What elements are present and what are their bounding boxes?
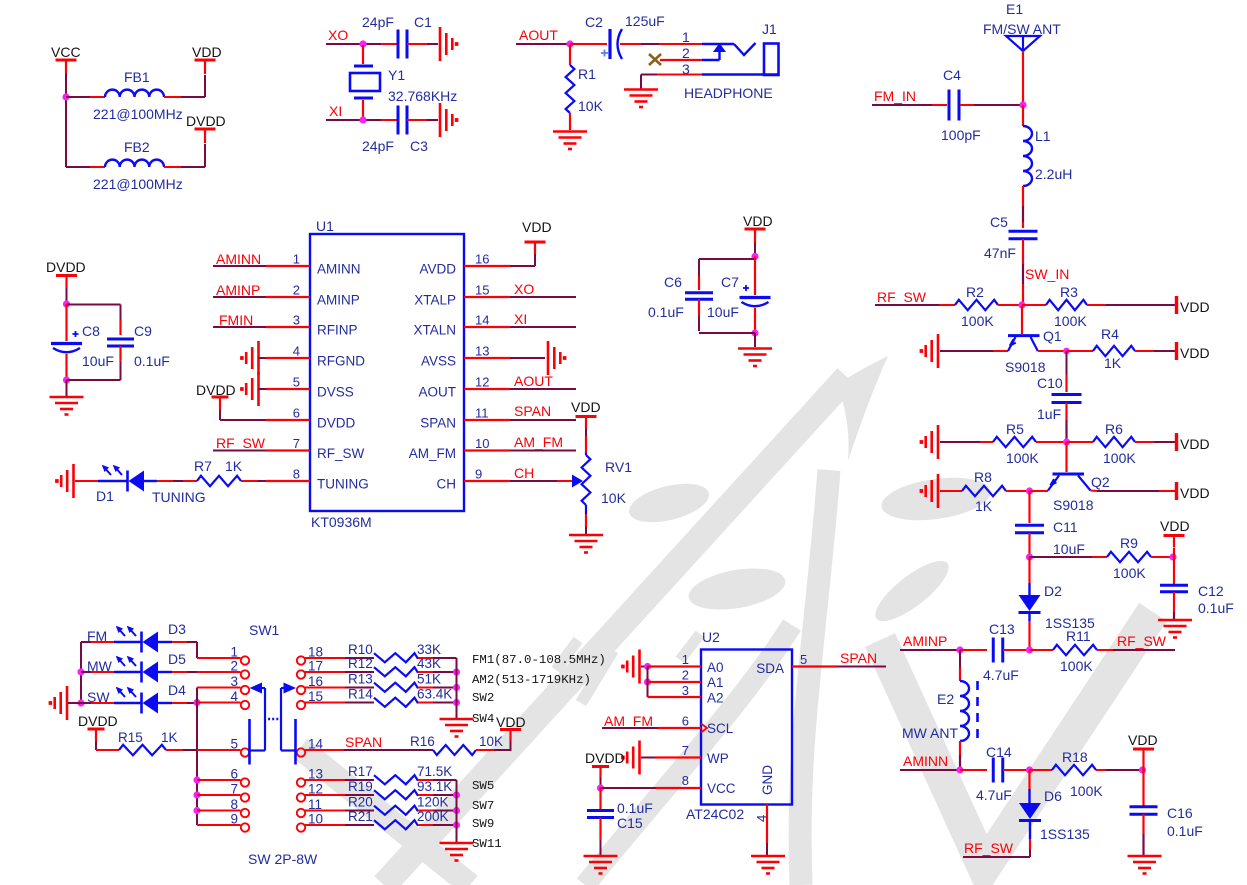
wire C7 to bottom loop <box>754 308 756 331</box>
wire XO to C1 <box>381 43 397 45</box>
net label FMIN (pin3) <box>213 312 266 328</box>
power symbol VDD (RV1) <box>571 399 601 429</box>
wire ground to D1 <box>75 480 98 482</box>
wire A0 <box>648 665 702 667</box>
svg-text:1SS135: 1SS135 <box>1040 826 1090 842</box>
svg-text:93.1K: 93.1K <box>417 779 452 794</box>
svg-text:4.7uF: 4.7uF <box>983 667 1019 683</box>
wire R12 to bus <box>418 671 457 673</box>
resistor R14 63.4K <box>348 687 452 707</box>
wire FB2 right to DVDD <box>164 144 205 167</box>
power symbol VDD (U1 pin16) <box>522 219 552 254</box>
svg-text:RV1: RV1 <box>605 459 632 475</box>
svg-text:10K: 10K <box>578 98 604 114</box>
wire SW1 to R12 <box>305 671 374 673</box>
crystal Y1 <box>350 45 457 119</box>
svg-text:L1: L1 <box>1035 128 1051 144</box>
wire R9 to junction <box>1151 556 1173 558</box>
capacitor C7 10uF (polarized) <box>707 257 771 321</box>
svg-text:FB2: FB2 <box>124 139 150 155</box>
junction C14/D6/R18 <box>1026 766 1033 773</box>
switch SW1 right contacts <box>297 645 324 832</box>
capacitor C12 0.1uF <box>1160 557 1234 616</box>
wire junction to R11 <box>1030 649 1054 651</box>
capacitor C5 47nF <box>984 214 1038 261</box>
no-connect X (J1 pin2) <box>649 54 661 65</box>
svg-text:R17: R17 <box>348 764 373 779</box>
power symbol VDD (row C) <box>1177 433 1210 452</box>
svg-text:100K: 100K <box>1006 450 1039 466</box>
svg-text:125uF: 125uF <box>625 13 665 29</box>
svg-text:C1: C1 <box>414 14 432 30</box>
wire SW1 to R20 <box>305 810 374 812</box>
junction VCC/C15 <box>597 784 604 791</box>
svg-text:SW4: SW4 <box>472 712 494 726</box>
svg-text:3: 3 <box>293 313 300 328</box>
svg-text:2: 2 <box>682 45 690 61</box>
wire CH to RV1 <box>557 480 572 482</box>
svg-text:R13: R13 <box>348 672 373 687</box>
junction row E <box>1026 553 1033 560</box>
ground (C1) <box>440 27 458 61</box>
power symbol VDD (C16) <box>1128 732 1158 761</box>
svg-text:R6: R6 <box>1105 421 1123 437</box>
ferrite bead FB1 <box>93 69 183 122</box>
svg-text:3: 3 <box>230 674 238 689</box>
svg-text:0.1uF: 0.1uF <box>1167 823 1203 839</box>
svg-text:C3: C3 <box>410 138 428 154</box>
LED D5 <box>114 651 186 683</box>
svg-text:8: 8 <box>230 797 238 812</box>
wire C1 to ground <box>407 43 438 45</box>
transistor Q1 S9018 <box>1005 306 1062 375</box>
net label XO (pin15) <box>510 281 576 297</box>
resistor R3 100K <box>1046 284 1087 329</box>
junction AMINP <box>956 646 963 653</box>
wire SW1 to R19 <box>305 794 374 796</box>
wire FB2 left <box>66 166 105 168</box>
wire C16 to ground <box>1142 814 1144 855</box>
wire SW1 to R17 <box>305 779 374 781</box>
svg-text:AVDD: AVDD <box>419 262 456 277</box>
svg-text:221@100MHz: 221@100MHz <box>93 106 183 122</box>
svg-text:DVDD: DVDD <box>46 259 86 275</box>
svg-text:AMINP: AMINP <box>317 293 360 308</box>
svg-text:4.7uF: 4.7uF <box>976 787 1012 803</box>
svg-text:5: 5 <box>230 737 238 752</box>
net label AMINN (pin1) <box>213 251 266 267</box>
svg-text:C5: C5 <box>990 214 1008 230</box>
svg-text:7: 7 <box>230 782 238 797</box>
power symbol VDD (FB1) <box>192 44 222 74</box>
resistor R7 1K <box>194 458 243 486</box>
resistor R12 43K <box>348 656 441 676</box>
svg-text:9: 9 <box>230 812 238 827</box>
wire bus to SW1 pin4 <box>197 702 241 704</box>
wire ground to rail <box>68 702 81 704</box>
ground (D1) <box>55 464 73 498</box>
svg-text:Q1: Q1 <box>1043 328 1062 344</box>
svg-text:R1: R1 <box>578 66 596 82</box>
svg-text:SW 2P-8W: SW 2P-8W <box>248 851 318 867</box>
svg-text:FM_IN: FM_IN <box>874 88 916 104</box>
svg-text:7: 7 <box>682 743 689 758</box>
wire R5 to junction row C <box>1036 441 1064 443</box>
wire C3 to ground <box>407 119 438 121</box>
wire R11 to RF_SW <box>1097 649 1175 651</box>
junction bus/D4 <box>193 699 200 706</box>
ferrite bead FB2 <box>93 139 183 192</box>
svg-text:R20: R20 <box>348 795 373 810</box>
svg-text:R12: R12 <box>348 656 373 671</box>
svg-text:XO: XO <box>328 27 348 43</box>
note SW5 <box>472 779 494 793</box>
wire VDD down <box>754 243 756 256</box>
svg-text:1: 1 <box>230 645 238 660</box>
svg-text:5: 5 <box>293 375 300 390</box>
wire bus to pin6 <box>197 779 241 781</box>
wire C5 to RF_SW row <box>1022 239 1024 305</box>
capacitor C9 0.1uF <box>107 320 170 369</box>
wire AMINN to C14 <box>960 769 987 771</box>
svg-text:4: 4 <box>230 689 238 704</box>
svg-text:100K: 100K <box>1113 565 1146 581</box>
svg-text:47nF: 47nF <box>984 245 1016 261</box>
svg-text:D1: D1 <box>96 488 114 504</box>
svg-text:10uF: 10uF <box>1053 541 1085 557</box>
svg-text:AMINN: AMINN <box>903 753 948 769</box>
wire R15 to bus/pin5 <box>166 749 241 751</box>
wire C12 to ground <box>1173 592 1175 619</box>
wire FB1 right to VDD <box>164 75 205 97</box>
junction bus pin8 <box>193 807 200 814</box>
wire DVDD to VCC <box>600 778 602 787</box>
wire bus to pin8 <box>197 810 241 812</box>
U1 pin names and numbers <box>293 252 490 492</box>
net label SPAN (SDA) <box>792 650 886 667</box>
wire L1 to C5 <box>1022 186 1024 228</box>
svg-text:1K: 1K <box>225 458 243 474</box>
wire bus to pin9 <box>197 824 241 826</box>
svg-text:AM_FM: AM_FM <box>514 434 563 450</box>
switch SW1 title <box>249 622 280 638</box>
svg-text:SW7: SW7 <box>472 799 494 813</box>
resistor R10 33K <box>348 642 441 662</box>
svg-text:R18: R18 <box>1062 749 1088 765</box>
svg-text:C13: C13 <box>989 621 1015 637</box>
svg-text:200K: 200K <box>417 809 449 824</box>
note SW2 <box>472 691 494 705</box>
wire J1 pin3 to ground <box>641 75 702 90</box>
svg-text:1K: 1K <box>161 730 178 745</box>
power symbol DVDD (U1 pin6) <box>212 397 229 410</box>
net label AMINP <box>900 633 960 650</box>
svg-text:12: 12 <box>475 375 489 390</box>
net label RF_SW (row A) <box>875 289 939 305</box>
svg-text:AMINP: AMINP <box>903 633 947 649</box>
svg-text:43K: 43K <box>417 656 441 671</box>
capacitor C16 0.1uF <box>1130 770 1203 839</box>
svg-text:10uF: 10uF <box>707 304 739 320</box>
wire R10 to bus <box>418 657 457 659</box>
ground (C12) <box>1158 620 1192 638</box>
svg-text:VDD: VDD <box>1180 485 1210 501</box>
net label FM_IN <box>872 88 932 105</box>
power symbol DVDD (C8) <box>46 259 86 289</box>
wire bus vertical <box>196 688 198 826</box>
wire row E down to D2 <box>1028 557 1030 583</box>
svg-text:J1: J1 <box>762 21 777 37</box>
svg-text:SW11: SW11 <box>472 837 502 851</box>
svg-text:9: 9 <box>475 467 482 482</box>
ground (R1) <box>553 132 587 150</box>
wire C6 to bottom loop <box>698 299 700 331</box>
wire R7 to U1 pin8 <box>241 480 266 482</box>
wire FM to D3 <box>81 641 114 643</box>
wire row E to R9 <box>1030 556 1108 558</box>
capacitor C8 10uF (polarized) <box>51 304 114 369</box>
resistor R13 51K <box>348 672 441 692</box>
svg-text:A2: A2 <box>707 691 724 706</box>
potentiometer RV1 10K <box>572 428 632 534</box>
pin numbers J1 <box>682 29 690 77</box>
svg-text:DVDD: DVDD <box>78 713 118 729</box>
wire C11 to row E <box>1028 533 1030 557</box>
svg-text:AMINN: AMINN <box>216 251 261 267</box>
svg-text:FM1(87.0-108.5MHz): FM1(87.0-108.5MHz) <box>472 653 606 667</box>
capacitor C10 1uF <box>1037 375 1082 422</box>
junction bank2 r10 <box>453 821 460 828</box>
svg-text:11: 11 <box>475 406 489 421</box>
power symbol DVDD (U2 VCC) <box>592 767 609 779</box>
svg-text:VDD: VDD <box>571 399 601 415</box>
wire VDD to junction <box>1142 761 1144 770</box>
wire D3 to SW1 pin1 <box>158 642 241 658</box>
note AM2 range <box>472 673 591 687</box>
junction row A <box>1018 301 1025 308</box>
net label AMINN <box>900 753 960 770</box>
svg-text:10K: 10K <box>479 734 503 749</box>
svg-text:D5: D5 <box>168 651 186 667</box>
svg-text:E1: E1 <box>1006 1 1023 17</box>
power symbol VDD (R16) <box>496 714 526 741</box>
resistor R16 10K <box>433 745 476 755</box>
wire R17 to bus 2 <box>418 779 457 781</box>
junction bank1 r15 <box>453 699 460 706</box>
svg-text:14: 14 <box>475 313 489 328</box>
wire VCC to FB rows <box>65 73 67 167</box>
wire FB1 left <box>66 96 105 98</box>
net label RF_SW (pin7) <box>213 435 266 451</box>
capacitor C4 100pF <box>941 67 981 143</box>
svg-text:Q2: Q2 <box>1091 474 1110 490</box>
svg-text:XI: XI <box>514 311 527 327</box>
junction bus pin6 <box>193 776 200 783</box>
svg-text:1: 1 <box>682 29 690 45</box>
svg-text:SW2: SW2 <box>472 691 494 705</box>
capacitor C15 0.1uF <box>587 788 653 831</box>
clock mark SCL <box>701 724 707 733</box>
wire junction to R6 <box>1067 441 1094 443</box>
wire SW1 to R21 <box>305 824 374 826</box>
svg-text:RFGND: RFGND <box>317 354 365 369</box>
svg-text:E2: E2 <box>937 691 954 707</box>
svg-text:C2: C2 <box>585 14 603 30</box>
junction XI <box>359 116 366 123</box>
resistor R9 100K <box>1107 535 1151 581</box>
ground (C8) <box>50 397 84 415</box>
svg-text:71.5K: 71.5K <box>417 764 452 779</box>
svg-text:DVSS: DVSS <box>317 385 354 400</box>
wire A0-A2 bus <box>647 667 649 698</box>
LED D3 <box>114 621 186 653</box>
svg-text:RF_SW: RF_SW <box>1117 633 1167 649</box>
svg-text:XTALP: XTALP <box>414 293 456 308</box>
wire bank2 bus <box>456 780 458 842</box>
wire pin13 to ground <box>510 357 545 359</box>
wire junction to R18 <box>1030 769 1053 771</box>
svg-text:R2: R2 <box>966 284 984 300</box>
transistor Q2 S9018 <box>1048 442 1110 513</box>
svg-text:10uF: 10uF <box>82 353 114 369</box>
svg-text:HEADPHONE: HEADPHONE <box>684 85 773 101</box>
svg-text:2: 2 <box>230 659 238 674</box>
svg-text:SW5: SW5 <box>472 779 494 793</box>
wire SW1 to R10 <box>305 657 374 659</box>
svg-text:DVDD: DVDD <box>317 416 356 431</box>
ground (U1 pin13 AVSS) <box>548 341 566 375</box>
capacitor C13 4.7uF <box>983 621 1019 683</box>
svg-text:CH: CH <box>437 477 457 492</box>
svg-text:FB1: FB1 <box>124 69 150 85</box>
wire E2 to AMINN row <box>959 741 961 770</box>
svg-text:U1: U1 <box>316 218 334 234</box>
junction C8 bottom <box>63 376 70 383</box>
wire A1 <box>648 681 702 683</box>
svg-text:FM/SW ANT: FM/SW ANT <box>983 21 1061 37</box>
wire D2 to AMINP row <box>1028 621 1030 647</box>
wire A2 <box>648 696 702 698</box>
svg-text:RF_SW: RF_SW <box>877 289 927 305</box>
svg-text:RF_SW: RF_SW <box>317 446 365 461</box>
junction A1 <box>644 678 651 685</box>
svg-text:XO: XO <box>514 281 534 297</box>
resistor R2 100K <box>955 284 998 329</box>
junction R8/Q2/C11 <box>1026 487 1033 494</box>
power symbol VCC <box>51 44 81 73</box>
net label SPAN (pin11) <box>510 403 576 420</box>
resistor R18 100K <box>1052 749 1103 799</box>
ground (U2 GND) <box>751 856 785 874</box>
diode D2 1SS135 <box>1019 583 1096 631</box>
net label AMINP (pin2) <box>213 282 266 298</box>
svg-text:RFINP: RFINP <box>317 323 358 338</box>
svg-text:D6: D6 <box>1044 788 1062 804</box>
wire junction down to C10 <box>1066 351 1068 392</box>
svg-text:4: 4 <box>293 344 300 359</box>
junction bank1 r17 <box>453 668 460 675</box>
wire AOUT to C2 <box>570 43 607 45</box>
wire C8 down <box>65 354 67 377</box>
svg-text:SPAN: SPAN <box>420 416 456 431</box>
resistor R15 1K <box>118 730 178 755</box>
wire top loop to C6 <box>699 259 755 276</box>
svg-text:100K: 100K <box>1070 783 1103 799</box>
power symbol VDD (row A) <box>1177 296 1210 315</box>
wire FM_IN to C4 <box>932 104 947 106</box>
svg-text:0.1uF: 0.1uF <box>1198 600 1234 616</box>
ground (C16) <box>1128 856 1162 874</box>
wire junction down to C11 <box>1028 491 1030 523</box>
svg-text:FMIN: FMIN <box>219 312 253 328</box>
wire junction to R3 <box>1022 304 1046 306</box>
svg-text:3: 3 <box>682 683 689 698</box>
wire C14 to junction <box>1003 769 1026 771</box>
svg-text:8: 8 <box>682 773 689 788</box>
wire rail top <box>80 642 82 703</box>
U2 pin numbers <box>682 652 807 822</box>
ground (U2 WP) <box>585 741 640 775</box>
wire R3 to VDD <box>1087 304 1175 306</box>
junction bank2 r11 <box>453 807 460 814</box>
wire SW1 to R13 <box>305 687 374 689</box>
wire U2 GND pin4 <box>766 804 768 855</box>
svg-text:D4: D4 <box>168 682 186 698</box>
svg-text:1uF: 1uF <box>1037 406 1061 422</box>
svg-text:SDA: SDA <box>756 661 784 676</box>
svg-text:R14: R14 <box>348 687 373 702</box>
ground (bank1) <box>440 719 474 737</box>
svg-text:C9: C9 <box>134 323 152 339</box>
junction A0 <box>644 663 651 670</box>
svg-text:TUNING: TUNING <box>317 477 369 492</box>
svg-text:C15: C15 <box>617 815 643 831</box>
junction antenna/FM_IN <box>1019 101 1026 108</box>
svg-text:6: 6 <box>230 767 238 782</box>
svg-text:51K: 51K <box>417 672 441 687</box>
svg-text:VDD: VDD <box>522 219 552 235</box>
junction row C <box>1063 438 1070 445</box>
resistor R17 71.5K <box>348 764 452 784</box>
wire SW1 to R14 <box>305 702 374 704</box>
U1 right pin stubs <box>464 266 510 481</box>
U1 left pin stubs <box>266 266 310 481</box>
wire R20 to bus 2 <box>418 810 457 812</box>
svg-text:WP: WP <box>707 751 729 766</box>
wire C8 to ground <box>66 380 68 396</box>
wire DVDD to R15 <box>96 741 119 750</box>
wire ground to WP <box>641 757 701 759</box>
capacitor C1 24pF <box>362 14 432 59</box>
wire to VCC pin <box>601 787 702 789</box>
svg-text:AMINN: AMINN <box>317 262 361 277</box>
note FM1 range <box>472 653 606 667</box>
svg-text:100K: 100K <box>961 313 994 329</box>
net label RF_SW (R11) <box>1117 633 1167 649</box>
wire C13 to junction <box>1003 649 1026 651</box>
svg-text:TUNING: TUNING <box>152 489 206 505</box>
svg-text:A0: A0 <box>707 660 724 675</box>
svg-text:R16: R16 <box>410 734 435 749</box>
power symbol VDD (row B) <box>1177 342 1210 361</box>
junction AOUT <box>566 40 573 47</box>
ground (RV1) <box>569 535 603 553</box>
wire D6 to RF_SW <box>963 822 1030 857</box>
resistor R20 120K <box>348 795 449 815</box>
junction R18/VDD/C16 <box>1139 766 1146 773</box>
power symbol VDD (row D) <box>1177 482 1210 501</box>
junction FB1 row <box>62 93 69 100</box>
